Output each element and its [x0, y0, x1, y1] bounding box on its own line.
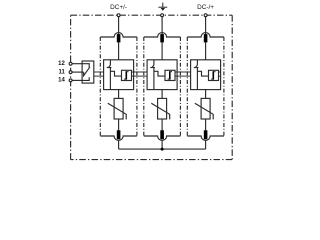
svg-text:12: 12: [58, 61, 65, 67]
svg-text:14: 14: [58, 78, 65, 84]
svg-text:11: 11: [58, 69, 65, 75]
svg-text:DC-/+: DC-/+: [197, 4, 214, 11]
svg-text:DC+/-: DC+/-: [110, 4, 127, 11]
